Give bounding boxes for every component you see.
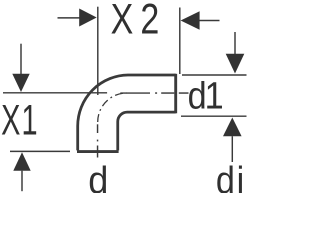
svg-text:1: 1 <box>22 96 38 144</box>
X2 dimension left extension line <box>97 7 99 95</box>
X2 left arrowhead pointing right <box>79 9 97 27</box>
X1 lower reference line <box>10 150 70 152</box>
elbow bottom end face <box>77 150 119 153</box>
svg-text:X2: X2 <box>111 0 160 43</box>
d1 upper reference line <box>182 74 247 76</box>
X2 dimension line left segment <box>58 17 81 19</box>
centerline bend arc (dash-dot) <box>98 93 127 122</box>
di arrowhead pointing up <box>223 118 242 137</box>
elbow right end face <box>174 74 177 114</box>
X1 top arrowhead pointing down <box>12 74 29 92</box>
X1 bottom arrowhead pointing up <box>13 152 30 171</box>
svg-text:d1: d1 <box>188 74 224 117</box>
centerline horizontal leg dot <box>155 92 157 94</box>
di arrow shaft <box>231 136 233 162</box>
X2 right arrowhead pointing left <box>181 11 200 29</box>
svg-text:d: d <box>88 158 108 193</box>
d1 lower reference line <box>181 115 247 117</box>
centerline horizontal leg dash beyond end face <box>179 92 189 94</box>
svg-text:di: di <box>216 158 244 193</box>
X1 top arrow shaft <box>20 44 22 75</box>
X1 upper reference line <box>3 92 107 94</box>
centerline horizontal leg dash 2 <box>161 92 174 94</box>
d1 top arrow shaft <box>234 32 236 54</box>
centerline vertical leg dash 2 <box>97 146 99 158</box>
elbow fitting outline inner wall <box>118 112 176 150</box>
centerline horizontal leg dash 1 <box>120 92 150 94</box>
X2 dimension line right segment <box>199 20 220 22</box>
elbow fitting outline outer wall <box>78 75 176 150</box>
centerline vertical leg dash 1 <box>97 124 99 133</box>
svg-text:X: X <box>1 96 20 144</box>
X1 bottom arrow shaft <box>21 171 23 192</box>
X2 dimension right extension line <box>179 8 181 75</box>
d1 arrowhead pointing down <box>226 54 245 74</box>
centerline vertical leg dot <box>97 140 99 142</box>
